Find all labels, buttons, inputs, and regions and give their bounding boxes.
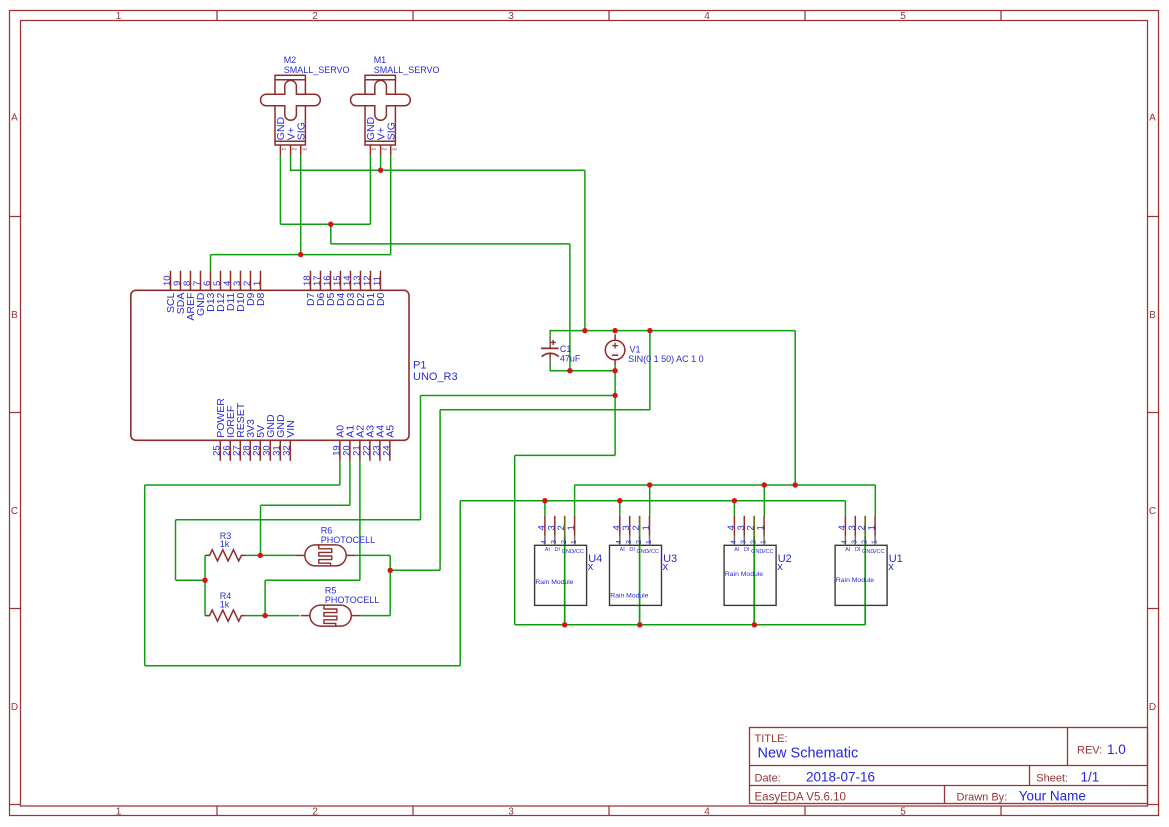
svg-text:2: 2 bbox=[636, 540, 643, 544]
svg-text:AI: AI bbox=[620, 547, 626, 553]
svg-text:3: 3 bbox=[300, 148, 306, 151]
svg-text:SIG: SIG bbox=[386, 122, 398, 140]
svg-text:x: x bbox=[777, 561, 783, 573]
svg-text:TITLE:: TITLE: bbox=[755, 733, 788, 745]
svg-text:x: x bbox=[663, 561, 669, 573]
svg-text:R5: R5 bbox=[325, 586, 337, 596]
svg-text:Your Name: Your Name bbox=[1019, 789, 1086, 804]
svg-text:3: 3 bbox=[626, 540, 633, 544]
svg-text:5: 5 bbox=[900, 11, 906, 22]
svg-text:11: 11 bbox=[372, 276, 383, 286]
svg-text:3: 3 bbox=[551, 540, 558, 544]
svg-text:1: 1 bbox=[641, 525, 652, 530]
svg-text:C1: C1 bbox=[560, 344, 572, 354]
svg-text:SMALL_SERVO: SMALL_SERVO bbox=[284, 65, 350, 75]
svg-text:1k: 1k bbox=[220, 539, 230, 549]
svg-text:x: x bbox=[888, 561, 894, 573]
svg-text:V1: V1 bbox=[630, 344, 641, 354]
svg-text:4: 4 bbox=[842, 540, 849, 544]
svg-text:3: 3 bbox=[852, 540, 859, 544]
svg-text:32: 32 bbox=[282, 445, 293, 456]
svg-text:Rain Module: Rain Module bbox=[610, 592, 648, 599]
svg-text:2: 2 bbox=[380, 148, 386, 151]
svg-text:VCC: VCC bbox=[873, 549, 885, 555]
svg-text:AI: AI bbox=[845, 547, 851, 553]
svg-text:D: D bbox=[11, 702, 18, 713]
svg-text:2: 2 bbox=[561, 540, 568, 544]
svg-text:C: C bbox=[11, 506, 18, 517]
svg-text:3: 3 bbox=[390, 148, 396, 151]
svg-text:DI: DI bbox=[629, 547, 635, 553]
svg-text:2: 2 bbox=[862, 540, 869, 544]
svg-text:1: 1 bbox=[867, 525, 878, 530]
svg-text:New Schematic: New Schematic bbox=[758, 746, 859, 762]
svg-text:1: 1 bbox=[756, 525, 767, 530]
svg-text:A: A bbox=[11, 113, 18, 124]
svg-text:1: 1 bbox=[760, 540, 767, 544]
svg-text:3: 3 bbox=[508, 11, 514, 22]
svg-text:VCC: VCC bbox=[647, 549, 659, 555]
svg-text:SIN(0 1 50) AC 1 0: SIN(0 1 50) AC 1 0 bbox=[628, 354, 704, 364]
svg-text:PHOTOCELL: PHOTOCELL bbox=[325, 595, 379, 605]
svg-text:1.0: 1.0 bbox=[1107, 742, 1126, 757]
svg-text:B: B bbox=[11, 310, 18, 321]
svg-text:1: 1 bbox=[280, 148, 286, 151]
svg-text:1k: 1k bbox=[220, 599, 230, 609]
svg-text:M2: M2 bbox=[284, 55, 297, 65]
svg-text:1: 1 bbox=[571, 540, 578, 544]
svg-text:1: 1 bbox=[370, 148, 376, 151]
svg-text:Date:: Date: bbox=[755, 772, 781, 784]
svg-text:4: 4 bbox=[704, 807, 710, 818]
svg-text:REV:: REV: bbox=[1077, 745, 1102, 757]
svg-text:R6: R6 bbox=[321, 526, 333, 536]
svg-text:4: 4 bbox=[616, 540, 623, 544]
svg-text:D: D bbox=[1149, 702, 1156, 713]
svg-text:DI: DI bbox=[855, 547, 861, 553]
svg-text:C: C bbox=[1149, 506, 1156, 517]
svg-text:1: 1 bbox=[871, 540, 878, 544]
svg-text:A: A bbox=[1149, 113, 1156, 124]
svg-text:4: 4 bbox=[731, 540, 738, 544]
svg-text:A5: A5 bbox=[385, 425, 397, 438]
svg-text:24: 24 bbox=[381, 445, 392, 456]
svg-text:D8: D8 bbox=[255, 292, 267, 306]
svg-text:1: 1 bbox=[646, 540, 653, 544]
svg-text:4: 4 bbox=[541, 540, 548, 544]
svg-text:1: 1 bbox=[566, 525, 577, 530]
svg-text:1/1: 1/1 bbox=[1081, 770, 1100, 785]
svg-text:VCC: VCC bbox=[762, 549, 774, 555]
svg-text:2: 2 bbox=[751, 540, 758, 544]
svg-text:EasyEDA V5.6.10: EasyEDA V5.6.10 bbox=[755, 791, 846, 803]
svg-text:Rain Module: Rain Module bbox=[836, 577, 874, 584]
svg-text:AI: AI bbox=[545, 547, 551, 553]
svg-text:VCC: VCC bbox=[572, 549, 584, 555]
svg-text:Rain Module: Rain Module bbox=[725, 571, 763, 578]
svg-text:3: 3 bbox=[741, 540, 748, 544]
svg-text:SMALL_SERVO: SMALL_SERVO bbox=[374, 65, 440, 75]
svg-text:2: 2 bbox=[312, 11, 318, 22]
svg-text:D0: D0 bbox=[375, 292, 387, 306]
svg-text:47uF: 47uF bbox=[560, 354, 581, 364]
svg-text:1: 1 bbox=[116, 11, 122, 22]
svg-text:2018-07-16: 2018-07-16 bbox=[806, 770, 875, 785]
svg-text:SIG: SIG bbox=[296, 122, 308, 140]
svg-text:2: 2 bbox=[312, 807, 318, 818]
svg-text:Drawn By:: Drawn By: bbox=[957, 791, 1008, 803]
svg-text:5: 5 bbox=[900, 807, 906, 818]
svg-text:DI: DI bbox=[744, 547, 750, 553]
svg-text:M1: M1 bbox=[374, 55, 387, 65]
svg-text:Sheet:: Sheet: bbox=[1036, 772, 1068, 784]
svg-text:AI: AI bbox=[734, 547, 740, 553]
svg-text:PHOTOCELL: PHOTOCELL bbox=[321, 535, 375, 545]
svg-text:DI: DI bbox=[554, 547, 560, 553]
svg-text:VIN: VIN bbox=[285, 420, 297, 438]
svg-text:2: 2 bbox=[290, 148, 296, 151]
svg-text:Rain Module: Rain Module bbox=[535, 579, 573, 586]
svg-text:3: 3 bbox=[508, 807, 514, 818]
svg-text:1: 1 bbox=[252, 281, 263, 286]
svg-text:B: B bbox=[1149, 310, 1156, 321]
svg-text:P1: P1 bbox=[413, 360, 426, 372]
svg-text:4: 4 bbox=[704, 11, 710, 22]
svg-text:UNO_R3: UNO_R3 bbox=[413, 371, 458, 383]
svg-text:1: 1 bbox=[116, 807, 122, 818]
svg-text:x: x bbox=[588, 561, 594, 573]
